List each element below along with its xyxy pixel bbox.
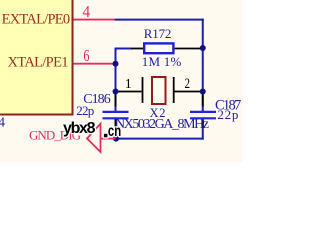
svg-text:4: 4 [0, 115, 5, 130]
svg-text:XTAL/PE1: XTAL/PE1 [8, 54, 69, 70]
svg-text:EXTAL/PE0: EXTAL/PE0 [2, 12, 71, 28]
svg-text:6: 6 [83, 47, 89, 65]
svg-text:cn: cn [108, 121, 121, 139]
svg-text:NX5032GA_8MHz: NX5032GA_8MHz [115, 117, 209, 132]
svg-text:4: 4 [83, 4, 91, 22]
svg-text:ybx8: ybx8 [63, 120, 96, 137]
svg-text:2: 2 [185, 74, 190, 91]
svg-text:22p: 22p [76, 103, 94, 118]
svg-text:1M 1%: 1M 1% [142, 54, 182, 69]
svg-text:22p: 22p [217, 107, 238, 122]
svg-text:1: 1 [125, 77, 132, 92]
svg-text:R172: R172 [144, 26, 172, 41]
